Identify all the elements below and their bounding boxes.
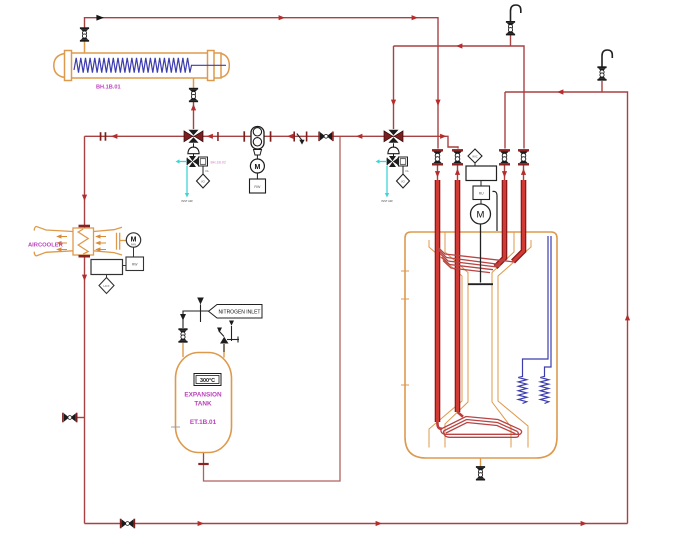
- svg-text:300°C: 300°C: [200, 378, 215, 384]
- svg-text:FA: FA: [406, 170, 409, 173]
- svg-text:INST AIR: INST AIR: [381, 199, 392, 203]
- svg-text:INST AIR: INST AIR: [181, 199, 192, 203]
- svg-text:EXPANSION: EXPANSION: [184, 392, 222, 399]
- svg-text:FA: FA: [206, 170, 209, 173]
- svg-text:TANK: TANK: [194, 401, 212, 408]
- svg-text:AIRCOOLER: AIRCOOLER: [28, 243, 64, 249]
- svg-text:ET.1B.01: ET.1B.01: [190, 419, 217, 426]
- svg-text:RW: RW: [132, 263, 138, 267]
- svg-text:RW: RW: [254, 185, 261, 189]
- svg-text:BH.1B.02: BH.1B.02: [211, 161, 226, 165]
- svg-text:WIC: WIC: [472, 154, 477, 158]
- svg-text:NITROGEN INLET: NITROGEN INLET: [219, 310, 261, 316]
- svg-text:M: M: [131, 237, 137, 244]
- svg-text:BH.1B.01: BH.1B.01: [96, 85, 121, 91]
- svg-text:HCX: HCX: [104, 284, 110, 288]
- svg-text:RU: RU: [479, 192, 484, 196]
- svg-text:M: M: [254, 164, 260, 171]
- svg-text:FAN: FAN: [131, 243, 136, 247]
- svg-text:M: M: [477, 210, 485, 221]
